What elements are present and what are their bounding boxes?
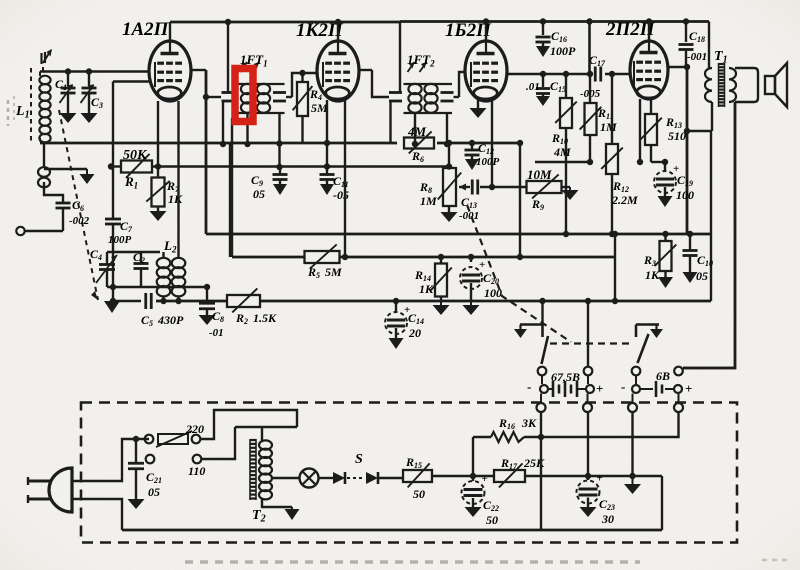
svg-text:+: +: [479, 259, 485, 271]
svg-text:30: 30: [601, 512, 614, 526]
svg-text:10М: 10М: [527, 167, 552, 182]
svg-text:-: -: [527, 379, 531, 394]
svg-text:220: 220: [185, 422, 204, 436]
svg-text:-001: -001: [459, 210, 479, 222]
svg-text:1А2П: 1А2П: [122, 19, 170, 40]
svg-text:5М: 5М: [311, 101, 328, 115]
svg-text:3К: 3К: [521, 416, 537, 430]
svg-text:-01: -01: [209, 327, 224, 339]
svg-text:+: +: [597, 473, 603, 485]
svg-text:-001: -001: [687, 51, 707, 63]
svg-text:2.2М: 2.2М: [611, 193, 638, 207]
svg-text:+: +: [685, 381, 692, 396]
svg-text:05: 05: [253, 187, 265, 201]
svg-text:50: 50: [413, 487, 425, 501]
svg-text:05: 05: [696, 269, 708, 283]
svg-text:100: 100: [676, 188, 694, 202]
svg-text:100Р: 100Р: [550, 44, 576, 58]
svg-text:4М: 4М: [407, 124, 427, 139]
svg-text:50К: 50К: [123, 148, 148, 163]
svg-text:100Р: 100Р: [476, 156, 500, 168]
svg-text:-002: -002: [69, 215, 90, 227]
svg-text:05: 05: [148, 485, 160, 499]
svg-text:-05: -05: [333, 188, 349, 202]
svg-text:5М: 5М: [325, 265, 342, 279]
svg-text:50: 50: [486, 513, 498, 527]
svg-text:6В: 6В: [656, 369, 670, 383]
svg-text:100Р: 100Р: [108, 234, 132, 246]
svg-text:+: +: [596, 381, 603, 396]
svg-text:-: -: [621, 379, 625, 394]
svg-text:1.5К: 1.5К: [253, 311, 277, 325]
svg-text:4М: 4М: [553, 145, 571, 159]
svg-text:510: 510: [668, 129, 686, 143]
svg-text:1К: 1К: [168, 192, 183, 206]
svg-text:1М: 1М: [600, 120, 617, 134]
svg-text:1К: 1К: [645, 268, 660, 282]
svg-text:430Р: 430Р: [157, 313, 184, 327]
svg-text:110: 110: [188, 464, 205, 478]
svg-text:+: +: [482, 473, 488, 485]
svg-text:1М: 1М: [420, 194, 437, 208]
svg-text:20: 20: [408, 326, 421, 340]
svg-text:1К: 1К: [419, 282, 434, 296]
svg-text:.01: .01: [526, 81, 540, 93]
svg-text:S: S: [355, 452, 363, 467]
